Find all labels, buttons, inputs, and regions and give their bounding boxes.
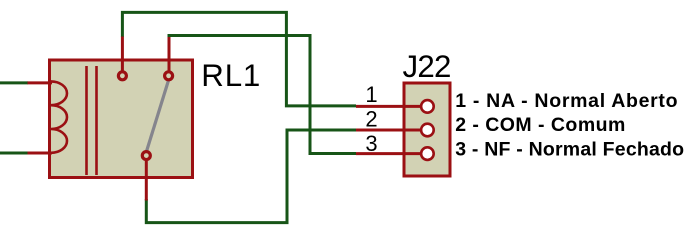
svg-text:1: 1 (365, 82, 377, 107)
svg-text:J22: J22 (403, 49, 451, 84)
svg-text:1 - NA - Normal Aberto: 1 - NA - Normal Aberto (455, 90, 678, 112)
svg-text:2 - COM - Comum: 2 - COM - Comum (455, 114, 626, 136)
svg-text:2: 2 (365, 107, 377, 132)
svg-text:3: 3 (365, 131, 377, 156)
svg-text:RL1: RL1 (201, 58, 261, 93)
svg-text:3 - NF - Normal Fechado: 3 - NF - Normal Fechado (455, 138, 684, 160)
